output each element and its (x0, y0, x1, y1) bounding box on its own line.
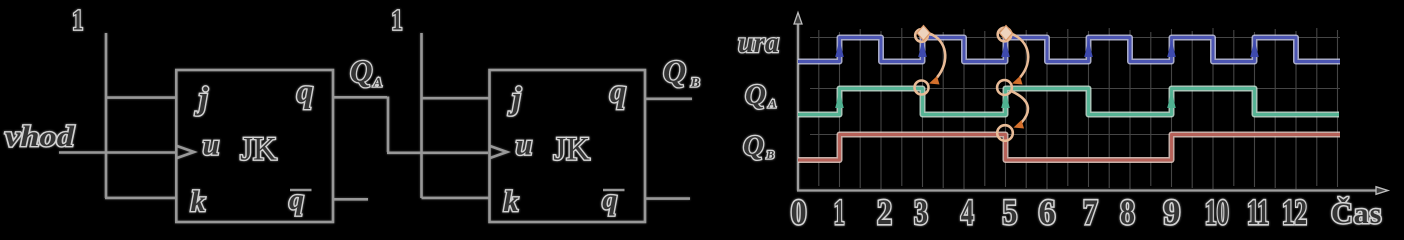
svg-text:B: B (766, 150, 775, 162)
svg-text:8: 8 (1120, 192, 1135, 232)
svg-text:3: 3 (914, 192, 928, 232)
svg-text:10: 10 (1205, 192, 1229, 232)
svg-text:q: q (602, 183, 617, 216)
svg-text:Q: Q (745, 79, 766, 111)
svg-text:9: 9 (1163, 192, 1180, 232)
svg-text:u: u (203, 129, 220, 162)
svg-text:q: q (297, 74, 314, 110)
svg-text:k: k (504, 185, 519, 218)
svg-text:B: B (690, 75, 700, 90)
svg-text:Q: Q (743, 130, 764, 162)
svg-text:4: 4 (961, 192, 974, 232)
svg-text:JK: JK (240, 132, 277, 168)
svg-text:2: 2 (877, 192, 892, 232)
svg-text:1: 1 (392, 6, 403, 37)
svg-text:6: 6 (1039, 192, 1056, 232)
svg-text:Q: Q (350, 53, 373, 89)
svg-text:1: 1 (834, 192, 845, 232)
svg-text:k: k (191, 185, 206, 218)
svg-text:Q: Q (663, 53, 686, 89)
svg-text:Čas: Čas (1331, 197, 1382, 230)
svg-text:q: q (610, 74, 627, 110)
svg-text:vhod: vhod (5, 120, 75, 153)
svg-text:JK: JK (553, 132, 590, 168)
svg-text:0: 0 (791, 192, 807, 232)
svg-text:1: 1 (72, 6, 83, 37)
svg-text:5: 5 (1002, 192, 1017, 232)
svg-text:u: u (516, 129, 533, 162)
svg-text:q: q (289, 183, 304, 216)
svg-text:ura: ura (738, 26, 779, 59)
svg-text:A: A (768, 99, 777, 111)
svg-text:11: 11 (1247, 192, 1269, 232)
svg-text:12: 12 (1282, 192, 1307, 232)
svg-text:A: A (373, 75, 383, 90)
svg-text:7: 7 (1083, 192, 1098, 232)
